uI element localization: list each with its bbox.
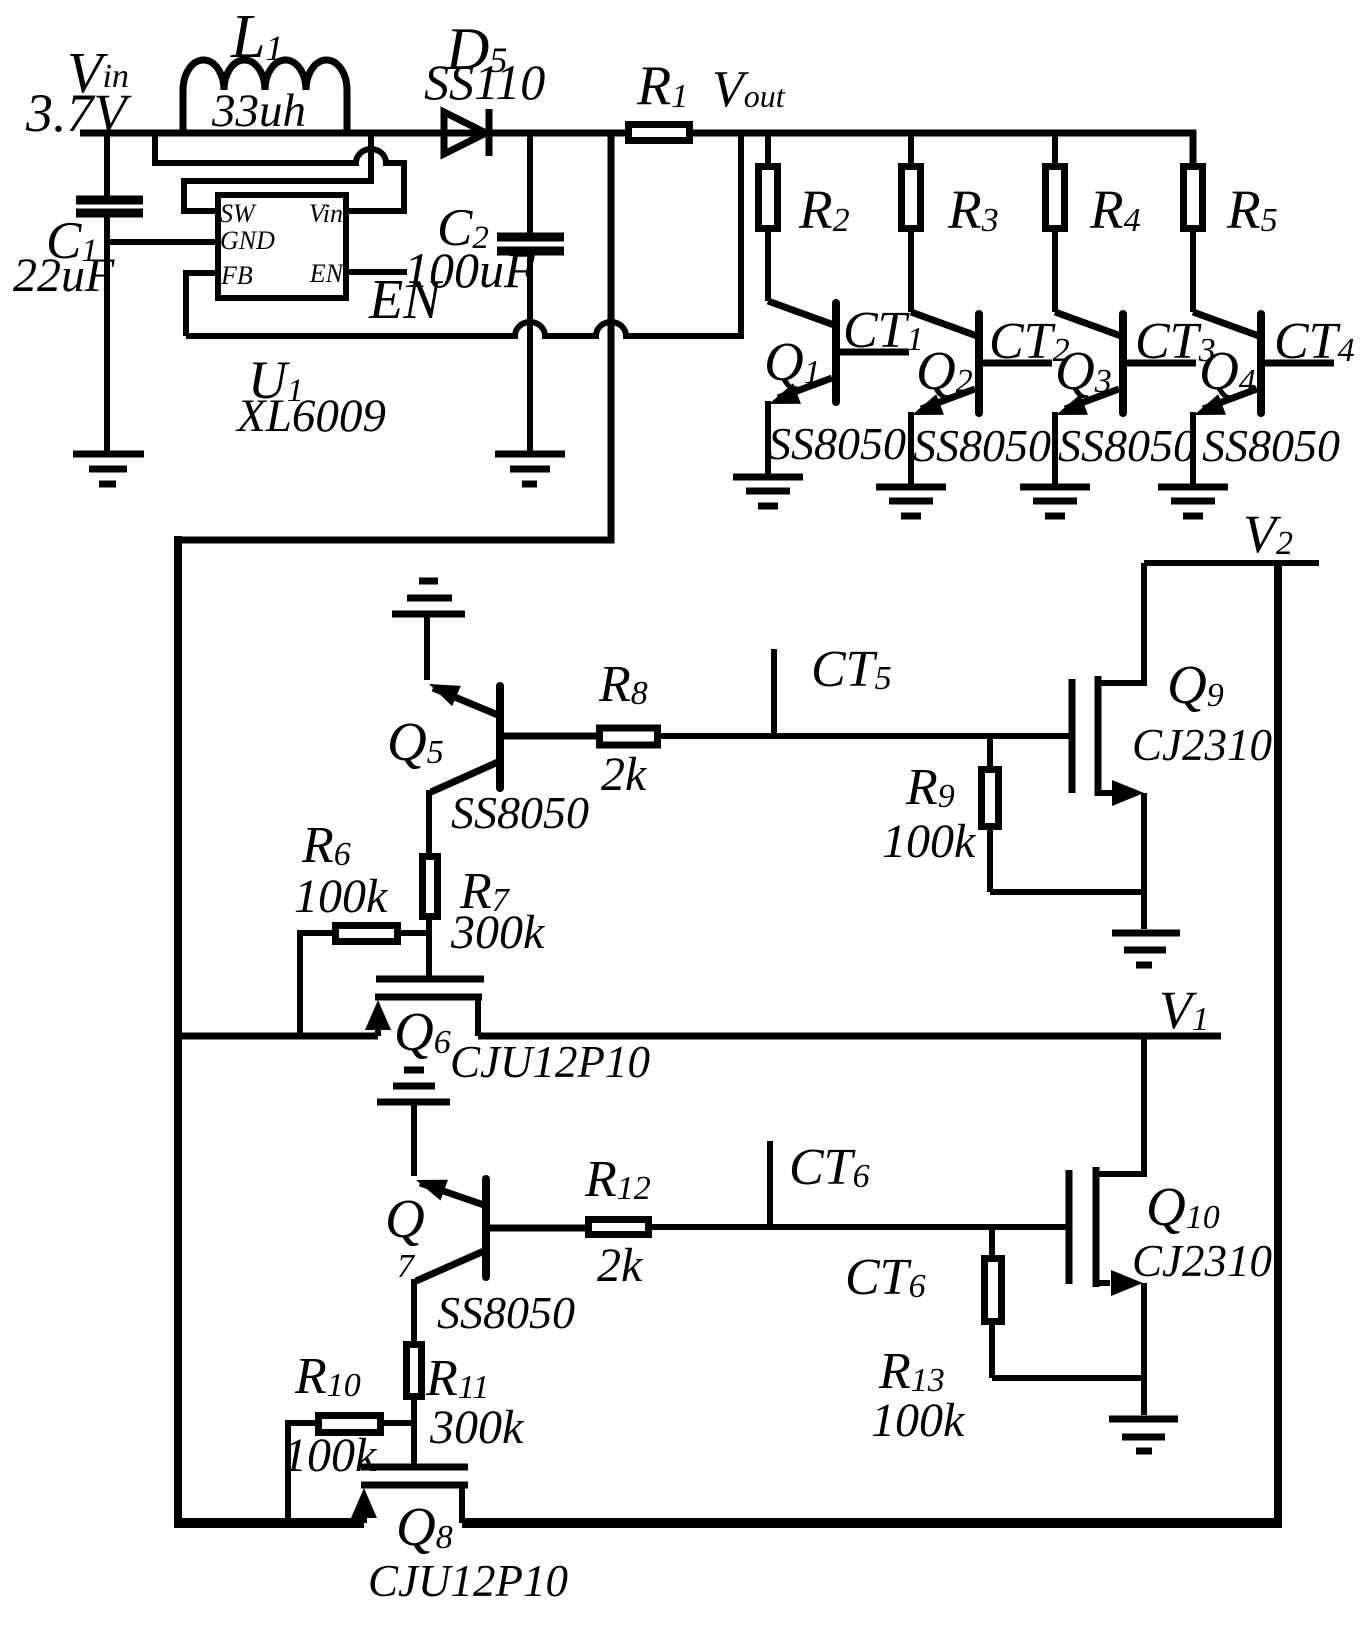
ground Q9 — [1112, 933, 1180, 965]
resistor R4 — [1046, 133, 1065, 312]
wire Q9 drain to V2 — [1141, 563, 1147, 686]
svg-text:SS110: SS110 — [424, 54, 545, 110]
svg-text:GND: GND — [220, 226, 275, 255]
transistor Q5 — [425, 674, 599, 853]
resistor R3 — [902, 133, 921, 312]
svg-text:SS8050: SS8050 — [437, 1287, 575, 1338]
capacitor C1 — [76, 130, 143, 451]
transistor Q8 (MOSFET CJU12P10) — [351, 1467, 468, 1523]
svg-text:2k: 2k — [601, 748, 648, 801]
resistor R1 — [629, 125, 690, 141]
capacitor C2 — [497, 130, 564, 451]
transistor Q7 — [412, 1170, 588, 1341]
svg-text:CJU12P10: CJU12P10 — [450, 1037, 650, 1087]
svg-text:3.7V: 3.7V — [25, 83, 133, 143]
transistor Q9 (MOSFET CJ2310) — [1072, 676, 1144, 929]
resistor R12 — [589, 1220, 649, 1235]
svg-text:SS8050: SS8050 — [913, 420, 1051, 471]
transistor Q2 — [908, 312, 1052, 487]
svg-text:CJ2310: CJ2310 — [1132, 720, 1272, 770]
svg-text:Vin: Vin — [309, 199, 343, 228]
resistor R8 — [600, 728, 658, 745]
ground Q2 — [876, 487, 946, 516]
node CT5 stub — [771, 649, 777, 736]
wire U1 EN pin — [346, 269, 407, 275]
svg-text:300k: 300k — [429, 1401, 525, 1454]
svg-text:100uF: 100uF — [404, 242, 535, 298]
wire gate line Q5 base to Q9 gate — [655, 733, 1069, 739]
node CT6 stub — [767, 1141, 773, 1227]
svg-text:SS8050: SS8050 — [451, 787, 589, 838]
wire battery to U1 Vin pin (hop over SW wire) — [155, 130, 404, 211]
wire main top rail Vin to R5 — [80, 133, 1193, 166]
svg-text:XL6009: XL6009 — [235, 390, 386, 442]
wire bottom rail right — [462, 1518, 1282, 1528]
diode D5 — [444, 109, 489, 156]
ground inverted (Q5 emitter) — [392, 581, 465, 680]
svg-text:300k: 300k — [450, 906, 546, 959]
svg-text:SS8050: SS8050 — [1202, 420, 1340, 471]
svg-text:Q: Q — [385, 1188, 425, 1249]
wire L1/D5 node to U1 SW pin — [184, 130, 371, 211]
svg-text:100k: 100k — [871, 1394, 966, 1447]
wire U1 FB pin down — [186, 273, 215, 336]
transistor Q4 — [1190, 312, 1334, 487]
transistor Q3 — [1052, 312, 1196, 487]
resistor R13 — [985, 1227, 1145, 1378]
ground C2 — [495, 454, 565, 484]
wire Q10 drain to V1 — [1141, 1036, 1147, 1177]
transistor Q10 (MOSFET CJ2310) — [1069, 1167, 1144, 1415]
ground Q3 — [1020, 487, 1090, 516]
resistor R11 — [407, 1345, 422, 1465]
svg-text:FB: FB — [220, 261, 253, 290]
svg-text:SS8050: SS8050 — [1058, 420, 1196, 471]
op-amp U1 XL6009 body — [218, 195, 346, 298]
svg-text:7: 7 — [397, 1248, 416, 1285]
wire feedback Vout to FB (hops over C2 and tap) — [186, 130, 741, 336]
resistor R6 — [300, 926, 429, 1034]
wire right rail V2 down to bottom — [1274, 563, 1282, 1527]
ground inverted (Q7 emitter) — [377, 1070, 450, 1176]
ground Q10 — [1109, 1419, 1178, 1451]
resistor R5 — [1184, 167, 1203, 313]
wire U1 GND pin to C1 — [107, 239, 215, 245]
wire V1 rail left — [178, 1033, 378, 1040]
transistor Q6 (MOSFET CJU12P10) — [365, 979, 484, 1036]
svg-text:EN: EN — [309, 259, 345, 288]
wire V2 rail — [1144, 560, 1319, 566]
wire V1 rail right — [478, 1033, 1221, 1040]
svg-text:SS8050: SS8050 — [768, 418, 906, 469]
ground Q1 — [733, 477, 803, 506]
svg-text:CJ2310: CJ2310 — [1132, 1236, 1272, 1286]
inductor L1 — [183, 60, 347, 133]
resistor R9 — [982, 736, 1145, 892]
resistor R7 — [423, 857, 438, 977]
svg-text:100k: 100k — [882, 815, 977, 868]
wire left rail down — [174, 536, 182, 1522]
wire gate line Q7 base to Q10 gate — [649, 1224, 1066, 1230]
svg-text:100k: 100k — [294, 870, 389, 923]
wire output tap to lower section — [178, 133, 611, 540]
transistor Q1 — [765, 301, 909, 477]
svg-text:2k: 2k — [597, 1239, 644, 1292]
svg-text:CJU12P10: CJU12P10 — [368, 1556, 568, 1606]
ground Q4 — [1158, 487, 1228, 516]
resistor R2 — [759, 133, 778, 301]
wire bottom rail left — [174, 1518, 364, 1528]
resistor R10 — [288, 1416, 414, 1519]
svg-text:22uF: 22uF — [13, 249, 115, 302]
svg-text:SW: SW — [220, 199, 257, 228]
svg-text:100k: 100k — [283, 1429, 378, 1482]
svg-text:33uh: 33uh — [211, 85, 306, 137]
ground C1 — [73, 454, 144, 484]
